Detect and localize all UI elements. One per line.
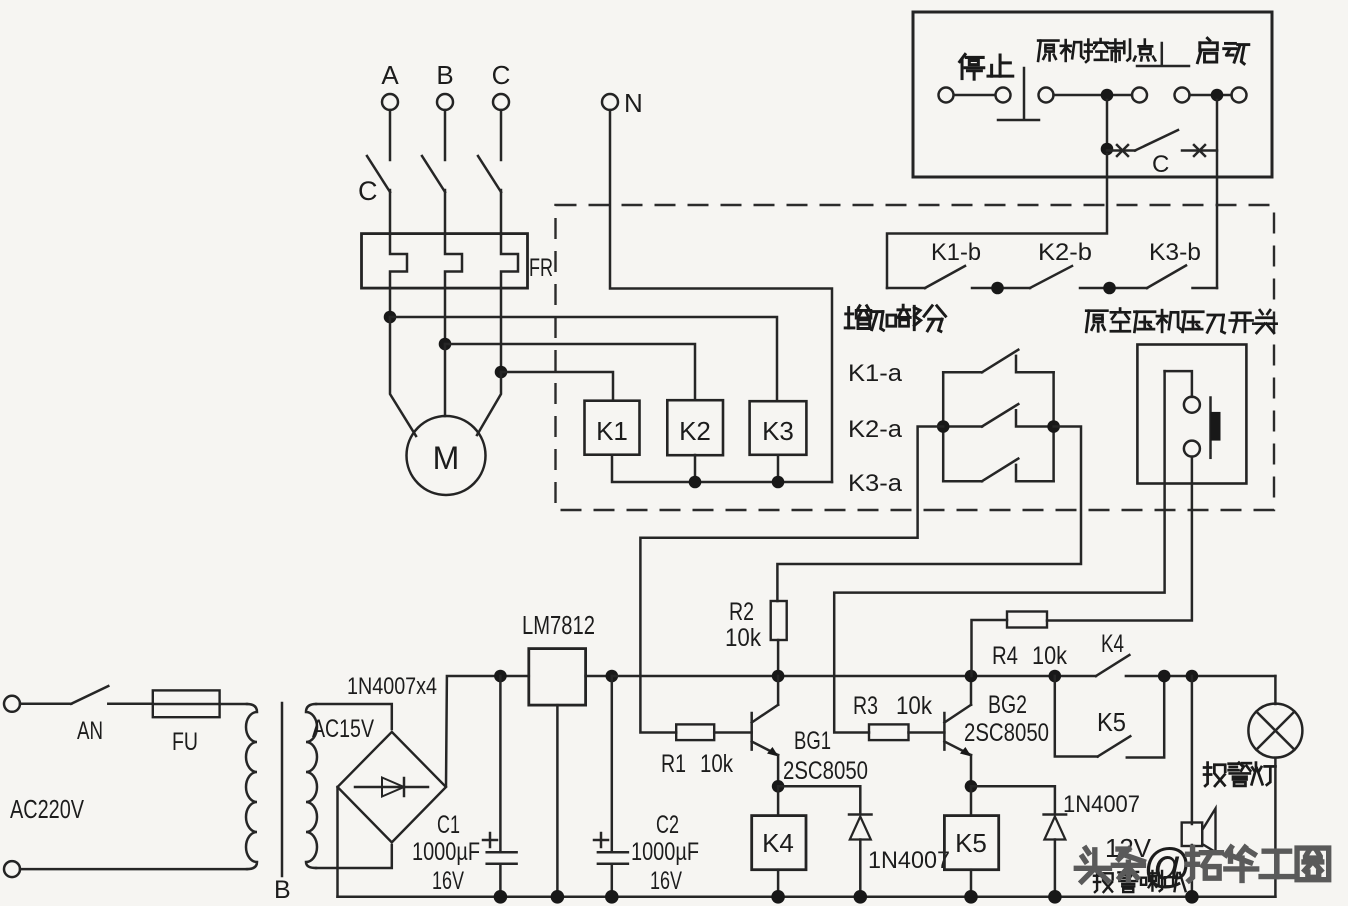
transistor BG1 xyxy=(750,713,753,750)
wire emitter to diode D2 xyxy=(971,786,1055,813)
wire secondary top to bridge xyxy=(316,704,392,729)
node aux contact xyxy=(1101,143,1114,156)
svg-text:2SC8050: 2SC8050 xyxy=(783,757,868,785)
svg-text:2SC8050: 2SC8050 xyxy=(964,719,1049,747)
wire start node down to K3-b xyxy=(1216,100,1219,288)
alarm lamp bao-jing-deng xyxy=(1248,704,1302,758)
node K2-a left xyxy=(937,420,950,433)
node phase B xyxy=(439,338,452,351)
node bus C2 xyxy=(605,890,619,904)
switch AN xyxy=(20,703,71,706)
relay coil K4 xyxy=(777,786,780,815)
node bus C1 xyxy=(494,890,508,904)
node bus D2 xyxy=(1048,890,1062,904)
contact K4 xyxy=(1096,655,1130,676)
wire LM7812 output xyxy=(586,675,612,678)
wire K3-b right xyxy=(1193,287,1218,290)
node BG1 collector xyxy=(772,670,785,683)
wire 12V rail xyxy=(612,675,1096,678)
svg-text:AC220V: AC220V xyxy=(10,794,84,824)
label yuan-kong-ya-ji-ya-li-kai-guan pressure switch xyxy=(1086,309,1276,333)
svg-text:10k: 10k xyxy=(1032,642,1067,670)
svg-text:R1: R1 xyxy=(661,750,686,778)
diode D1 1N4007 xyxy=(849,813,872,816)
aux contact C lead left xyxy=(1107,149,1135,152)
wire K2-a right extension to R2 xyxy=(777,427,1081,602)
node K1-b xyxy=(991,282,1004,295)
wire FU to transformer xyxy=(220,703,247,706)
wire aux node down xyxy=(887,154,1107,288)
svg-text:BG1: BG1 xyxy=(794,727,831,755)
contact K1-a xyxy=(943,371,982,374)
wire B to FR xyxy=(444,190,447,234)
wire R3 to BG2 base xyxy=(909,731,945,734)
node K5 return xyxy=(1158,670,1171,683)
wire A below FR xyxy=(389,288,392,317)
svg-text:FR: FR xyxy=(529,254,553,282)
node start xyxy=(1211,89,1224,102)
wire control point xyxy=(1054,94,1133,97)
wire start contact xyxy=(1190,94,1232,97)
svg-text:AN: AN xyxy=(77,717,103,745)
wire rail to lamp xyxy=(1274,676,1277,704)
relay coil K3 xyxy=(750,401,807,455)
relay coil K2 xyxy=(667,400,723,455)
svg-text:16V: 16V xyxy=(432,867,464,895)
wire phase B drop xyxy=(444,110,447,160)
regulator LM7812 xyxy=(529,649,586,706)
svg-text:1000µF: 1000µF xyxy=(412,838,480,866)
node horn feed xyxy=(1186,670,1199,683)
label ting-zhi stop xyxy=(960,54,1013,79)
label bao-jing-la-ba alarm horn xyxy=(1094,871,1186,892)
svg-text:B: B xyxy=(274,876,291,904)
svg-text:K3-a: K3-a xyxy=(848,470,903,497)
start terminal left xyxy=(1175,88,1190,103)
wire phase C drop xyxy=(500,110,503,160)
stop button terminal left xyxy=(939,88,954,103)
transformer secondary winding xyxy=(306,704,317,868)
wire phase B to K2 coil xyxy=(445,344,695,400)
wire pressure switch bottom lead to R4 xyxy=(1047,457,1192,621)
wire BG1 emitter down xyxy=(777,755,780,786)
wire horn drop xyxy=(1191,676,1194,824)
resistor R4 xyxy=(1007,612,1047,628)
diode D2 1N4007 xyxy=(1044,813,1067,816)
svg-text:C: C xyxy=(492,60,511,90)
wire K5 contact right xyxy=(1127,676,1164,758)
relay coil K1 xyxy=(585,401,640,455)
wire K5 coil to bus xyxy=(970,870,973,897)
wire K2 coil to common xyxy=(694,455,697,482)
wire K4 coil to bus xyxy=(777,870,780,897)
control point terminal right xyxy=(1132,88,1147,103)
svg-text:10k: 10k xyxy=(896,692,932,720)
relay coil K5 xyxy=(970,786,973,815)
contact K5 xyxy=(1098,736,1131,756)
wire primary to terminal xyxy=(20,868,247,871)
plus mark C1 xyxy=(483,839,497,842)
resistor R3 xyxy=(869,724,909,740)
node BG2 collector xyxy=(965,670,978,683)
wire phase A drop xyxy=(389,110,392,160)
contactor C pole C xyxy=(478,156,501,192)
node phase A xyxy=(384,311,397,324)
wire K1-b to K2-b xyxy=(972,287,1030,290)
svg-text:C1: C1 xyxy=(437,811,460,839)
wire R1 to BG1 base xyxy=(714,731,752,734)
capacitor C1 xyxy=(499,676,502,851)
wire K2-b to K3-b xyxy=(1080,287,1147,290)
svg-text:K5: K5 xyxy=(955,828,987,858)
wire R4 left lead xyxy=(972,620,1008,676)
wire LM7812 ground xyxy=(556,705,559,897)
control point terminal left xyxy=(1039,88,1054,103)
pressure switch box xyxy=(1137,345,1246,484)
motor M xyxy=(407,416,486,495)
terminal B xyxy=(437,94,453,110)
aux contact cross mark left xyxy=(1117,145,1128,156)
svg-text:1N4007: 1N4007 xyxy=(868,847,950,874)
svg-text:10k: 10k xyxy=(725,624,761,652)
start button actuator xyxy=(1161,43,1164,65)
dashed box added section xyxy=(556,205,1275,510)
node C1 top xyxy=(494,670,507,683)
svg-text:K1-b: K1-b xyxy=(931,239,981,266)
label zeng-jia-bu-fen added part xyxy=(845,305,945,331)
K-a right bus xyxy=(1052,372,1055,481)
svg-text:@: @ xyxy=(1143,840,1192,893)
wire phase C to K1 coil xyxy=(501,372,613,401)
contact K2-a xyxy=(943,425,982,428)
alarm horn speaker xyxy=(1182,823,1203,847)
wire B to motor xyxy=(444,344,447,416)
svg-text:C2: C2 xyxy=(656,811,679,839)
stop button contact bar xyxy=(954,94,995,97)
svg-text:K5: K5 xyxy=(1097,707,1126,737)
FR heater A xyxy=(390,234,407,288)
svg-text:K3: K3 xyxy=(762,416,794,446)
wire C below FR xyxy=(500,288,503,372)
wire phase A to K3 coil xyxy=(390,317,777,401)
svg-text:K1-a: K1-a xyxy=(848,360,903,387)
svg-text:A: A xyxy=(381,60,399,90)
wire rail to K5 contact xyxy=(1055,676,1098,757)
contact K1-b xyxy=(887,287,925,290)
wire control point down xyxy=(1106,100,1109,149)
transistor BG2 xyxy=(943,713,946,750)
svg-text:10k: 10k xyxy=(700,750,733,778)
wire BG2 emitter down xyxy=(970,755,973,786)
terminal N xyxy=(602,94,618,110)
wire horn to bus xyxy=(1191,845,1194,897)
wire lamp to bus xyxy=(1274,758,1277,897)
label qi-dong start xyxy=(1198,38,1249,64)
wire C to motor xyxy=(477,372,501,435)
label bao-jing-deng alarm lamp xyxy=(1204,763,1275,786)
node K2 common xyxy=(689,476,702,489)
svg-text:K2: K2 xyxy=(679,416,711,446)
node K5 feed xyxy=(1049,670,1062,683)
node bus LM7812 xyxy=(551,890,565,904)
wire pressure switch left lead to R3 xyxy=(834,371,1164,732)
node bus D1 xyxy=(854,890,868,904)
ground bus 0V xyxy=(338,896,1276,899)
svg-text:R3: R3 xyxy=(853,692,878,720)
node K2-a right xyxy=(1047,420,1060,433)
node control point xyxy=(1101,89,1114,102)
svg-text:AC15V: AC15V xyxy=(312,715,374,743)
node C2 top xyxy=(606,670,619,683)
wire C to FR xyxy=(500,190,503,234)
node BG2 emitter xyxy=(965,780,978,793)
pressure switch actuator xyxy=(1209,398,1212,458)
svg-text:FU: FU xyxy=(172,728,198,756)
svg-text:R4: R4 xyxy=(992,642,1018,670)
svg-text:BG2: BG2 xyxy=(988,691,1027,719)
FR heater B xyxy=(445,234,462,288)
wire R2 bottom xyxy=(777,640,780,676)
wire emitter to diode D1 xyxy=(778,786,860,813)
svg-text:N: N xyxy=(624,88,643,118)
contact K3-a xyxy=(943,480,982,483)
terminal AC N xyxy=(4,861,20,877)
capacitor C2 xyxy=(611,676,614,851)
control panel box xyxy=(913,12,1272,177)
start terminal right xyxy=(1232,88,1247,103)
svg-text:16V: 16V xyxy=(650,867,682,895)
node bus horn xyxy=(1185,890,1199,904)
aux contact cross mark right xyxy=(1194,145,1205,156)
contactor C pole B xyxy=(422,156,445,192)
bridge diode symbol xyxy=(355,786,428,789)
FR heater C xyxy=(501,234,518,288)
node bus K5 xyxy=(964,890,978,904)
plus mark C2 xyxy=(594,839,608,842)
label yuan-ji-kong-zhi-dian control point xyxy=(1038,39,1155,62)
pressure switch contact bottom xyxy=(1184,441,1200,457)
wire N down xyxy=(610,110,832,482)
wire AN to FU xyxy=(108,703,153,706)
wire secondary bottom to bridge xyxy=(316,845,392,868)
terminal C xyxy=(493,94,509,110)
svg-text:1000µF: 1000µF xyxy=(631,838,699,866)
transformer core xyxy=(281,703,284,876)
terminal A xyxy=(382,94,398,110)
K-a left bus xyxy=(942,372,945,481)
svg-text:R2: R2 xyxy=(729,598,754,626)
aux contact lead right xyxy=(1182,149,1217,152)
wire K1 coil to common xyxy=(612,455,832,482)
watermark toutiao xyxy=(1076,848,1143,881)
svg-text:1N4007x4: 1N4007x4 xyxy=(347,673,437,700)
bridge rectifier 1N4007x4 xyxy=(338,732,447,843)
node phase C xyxy=(495,366,508,379)
contact K2-b xyxy=(1030,266,1072,288)
stop button actuator xyxy=(1023,68,1026,119)
terminal AC L xyxy=(4,696,20,712)
svg-text:1N4007: 1N4007 xyxy=(1063,791,1140,818)
aux contact C blade xyxy=(1135,130,1178,151)
svg-text:K1: K1 xyxy=(596,416,628,446)
wire K3 coil to common xyxy=(777,455,780,482)
node bus K4 xyxy=(771,890,785,904)
wire rail after K4 xyxy=(1126,675,1276,678)
resistor R2 xyxy=(771,601,787,640)
transformer primary winding xyxy=(246,704,257,869)
node K2-b xyxy=(1103,282,1116,295)
wire bridge negative to ground bus xyxy=(336,787,339,897)
wire bridge positive up xyxy=(446,676,529,786)
pressure switch contact top xyxy=(1184,397,1200,413)
thermal relay FR box xyxy=(362,234,528,289)
svg-text:C: C xyxy=(1152,151,1169,178)
svg-text:K2-b: K2-b xyxy=(1038,239,1092,266)
node BG1 emitter xyxy=(772,780,785,793)
contact K3-b xyxy=(1147,266,1186,289)
contactor C pole A xyxy=(367,156,390,192)
svg-text:K3-b: K3-b xyxy=(1149,239,1201,266)
svg-text:K4: K4 xyxy=(762,828,794,858)
pressure switch bracket xyxy=(1165,371,1192,397)
wire B below FR xyxy=(444,288,447,344)
fuse FU xyxy=(153,690,220,717)
svg-text:K2-a: K2-a xyxy=(848,416,903,443)
wire A to motor xyxy=(390,317,416,436)
stop button terminal right xyxy=(996,88,1011,103)
resistor R1 xyxy=(676,724,714,740)
svg-text:LM7812: LM7812 xyxy=(522,610,595,640)
svg-text:C: C xyxy=(358,176,378,206)
svg-text:K4: K4 xyxy=(1101,630,1124,658)
svg-text:B: B xyxy=(436,60,453,90)
wire A to FR xyxy=(389,190,392,234)
node K3 common xyxy=(772,476,785,489)
wire K2-a left extension to R1 xyxy=(640,427,943,733)
svg-text:M: M xyxy=(433,440,460,476)
